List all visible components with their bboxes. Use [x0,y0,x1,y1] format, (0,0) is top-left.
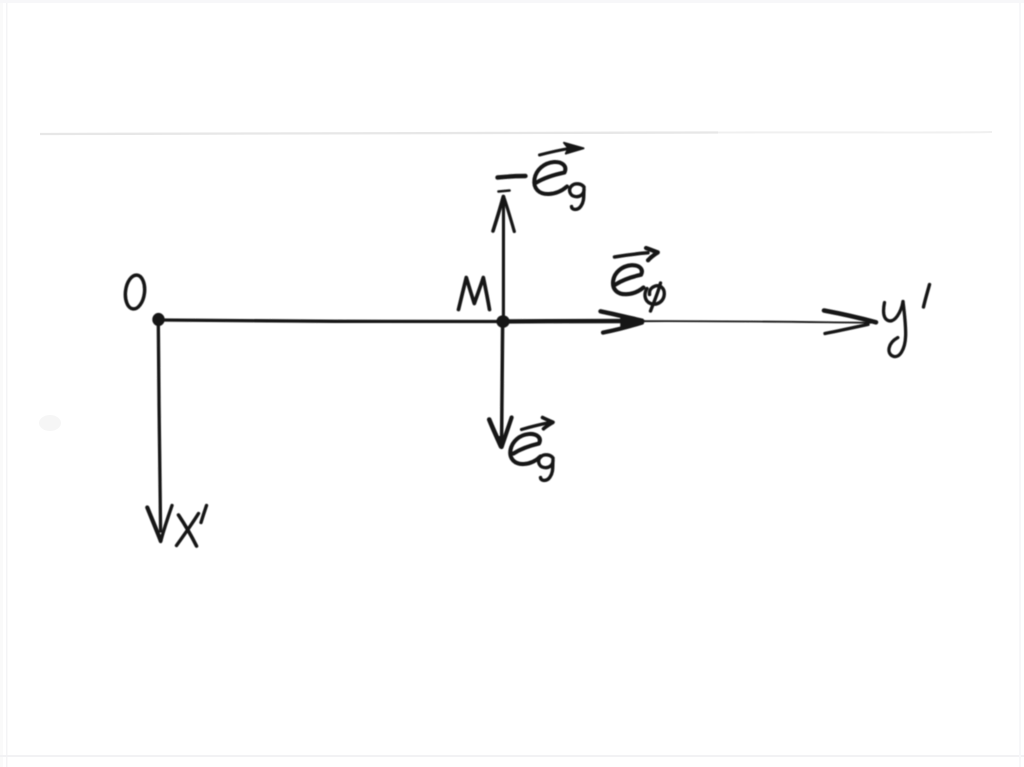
faint smudge left [39,415,61,431]
arrowhead of axis x' (V) [147,508,160,541]
faint slide frame right [1019,0,1021,767]
wire: horizontal thick segment M to e-phi arrow (vector e_phi shaft) [503,319,640,324]
wire: horizontal thin segment to y' arrow [640,321,871,323]
vector e_rho: vertical line down from M [502,325,503,441]
faint slide frame top [0,0,1024,3]
node M dot [496,315,509,328]
arrowhead of axis y' (open chevron) [824,311,876,323]
label e_rho: letter e [510,434,540,464]
label e_phi: subscript phi [645,286,664,304]
faint slide frame bottom [0,755,1024,757]
label y' [884,302,903,321]
label M [459,278,490,310]
wire: horizontal axis segment O to M [160,320,502,322]
faint scan top edge line [40,133,718,135]
arrowhead of e_rho (V down, heavy) [489,420,501,447]
arrowhead of vector e_phi (filled) [601,311,643,320]
label -e_rho: letter e [534,162,567,194]
label O [123,274,146,310]
label x' [179,515,197,546]
label e_phi: letter e [613,265,644,294]
prime of y' [924,285,930,308]
wire: vertical axis O down to x' [158,322,160,531]
faint slide frame left [0,0,3,767]
label -e_rho: subscript rho [570,184,584,210]
prime of x' [201,506,207,523]
node O dot [152,313,164,326]
arrowhead of -e_rho (V up) [493,197,503,232]
label e_rho: subscript rho [539,455,553,481]
small pen tick at -e_rho tip [499,191,510,192]
vector -e_rho: vertical line up from M [502,198,505,318]
label -e_rho (top): minus sign [498,176,526,178]
label e_phi: vector arrow over e [615,253,649,257]
label e_rho (bottom): vector arrow over e [522,423,548,430]
label -e_rho: vector arrow over e [540,149,570,156]
